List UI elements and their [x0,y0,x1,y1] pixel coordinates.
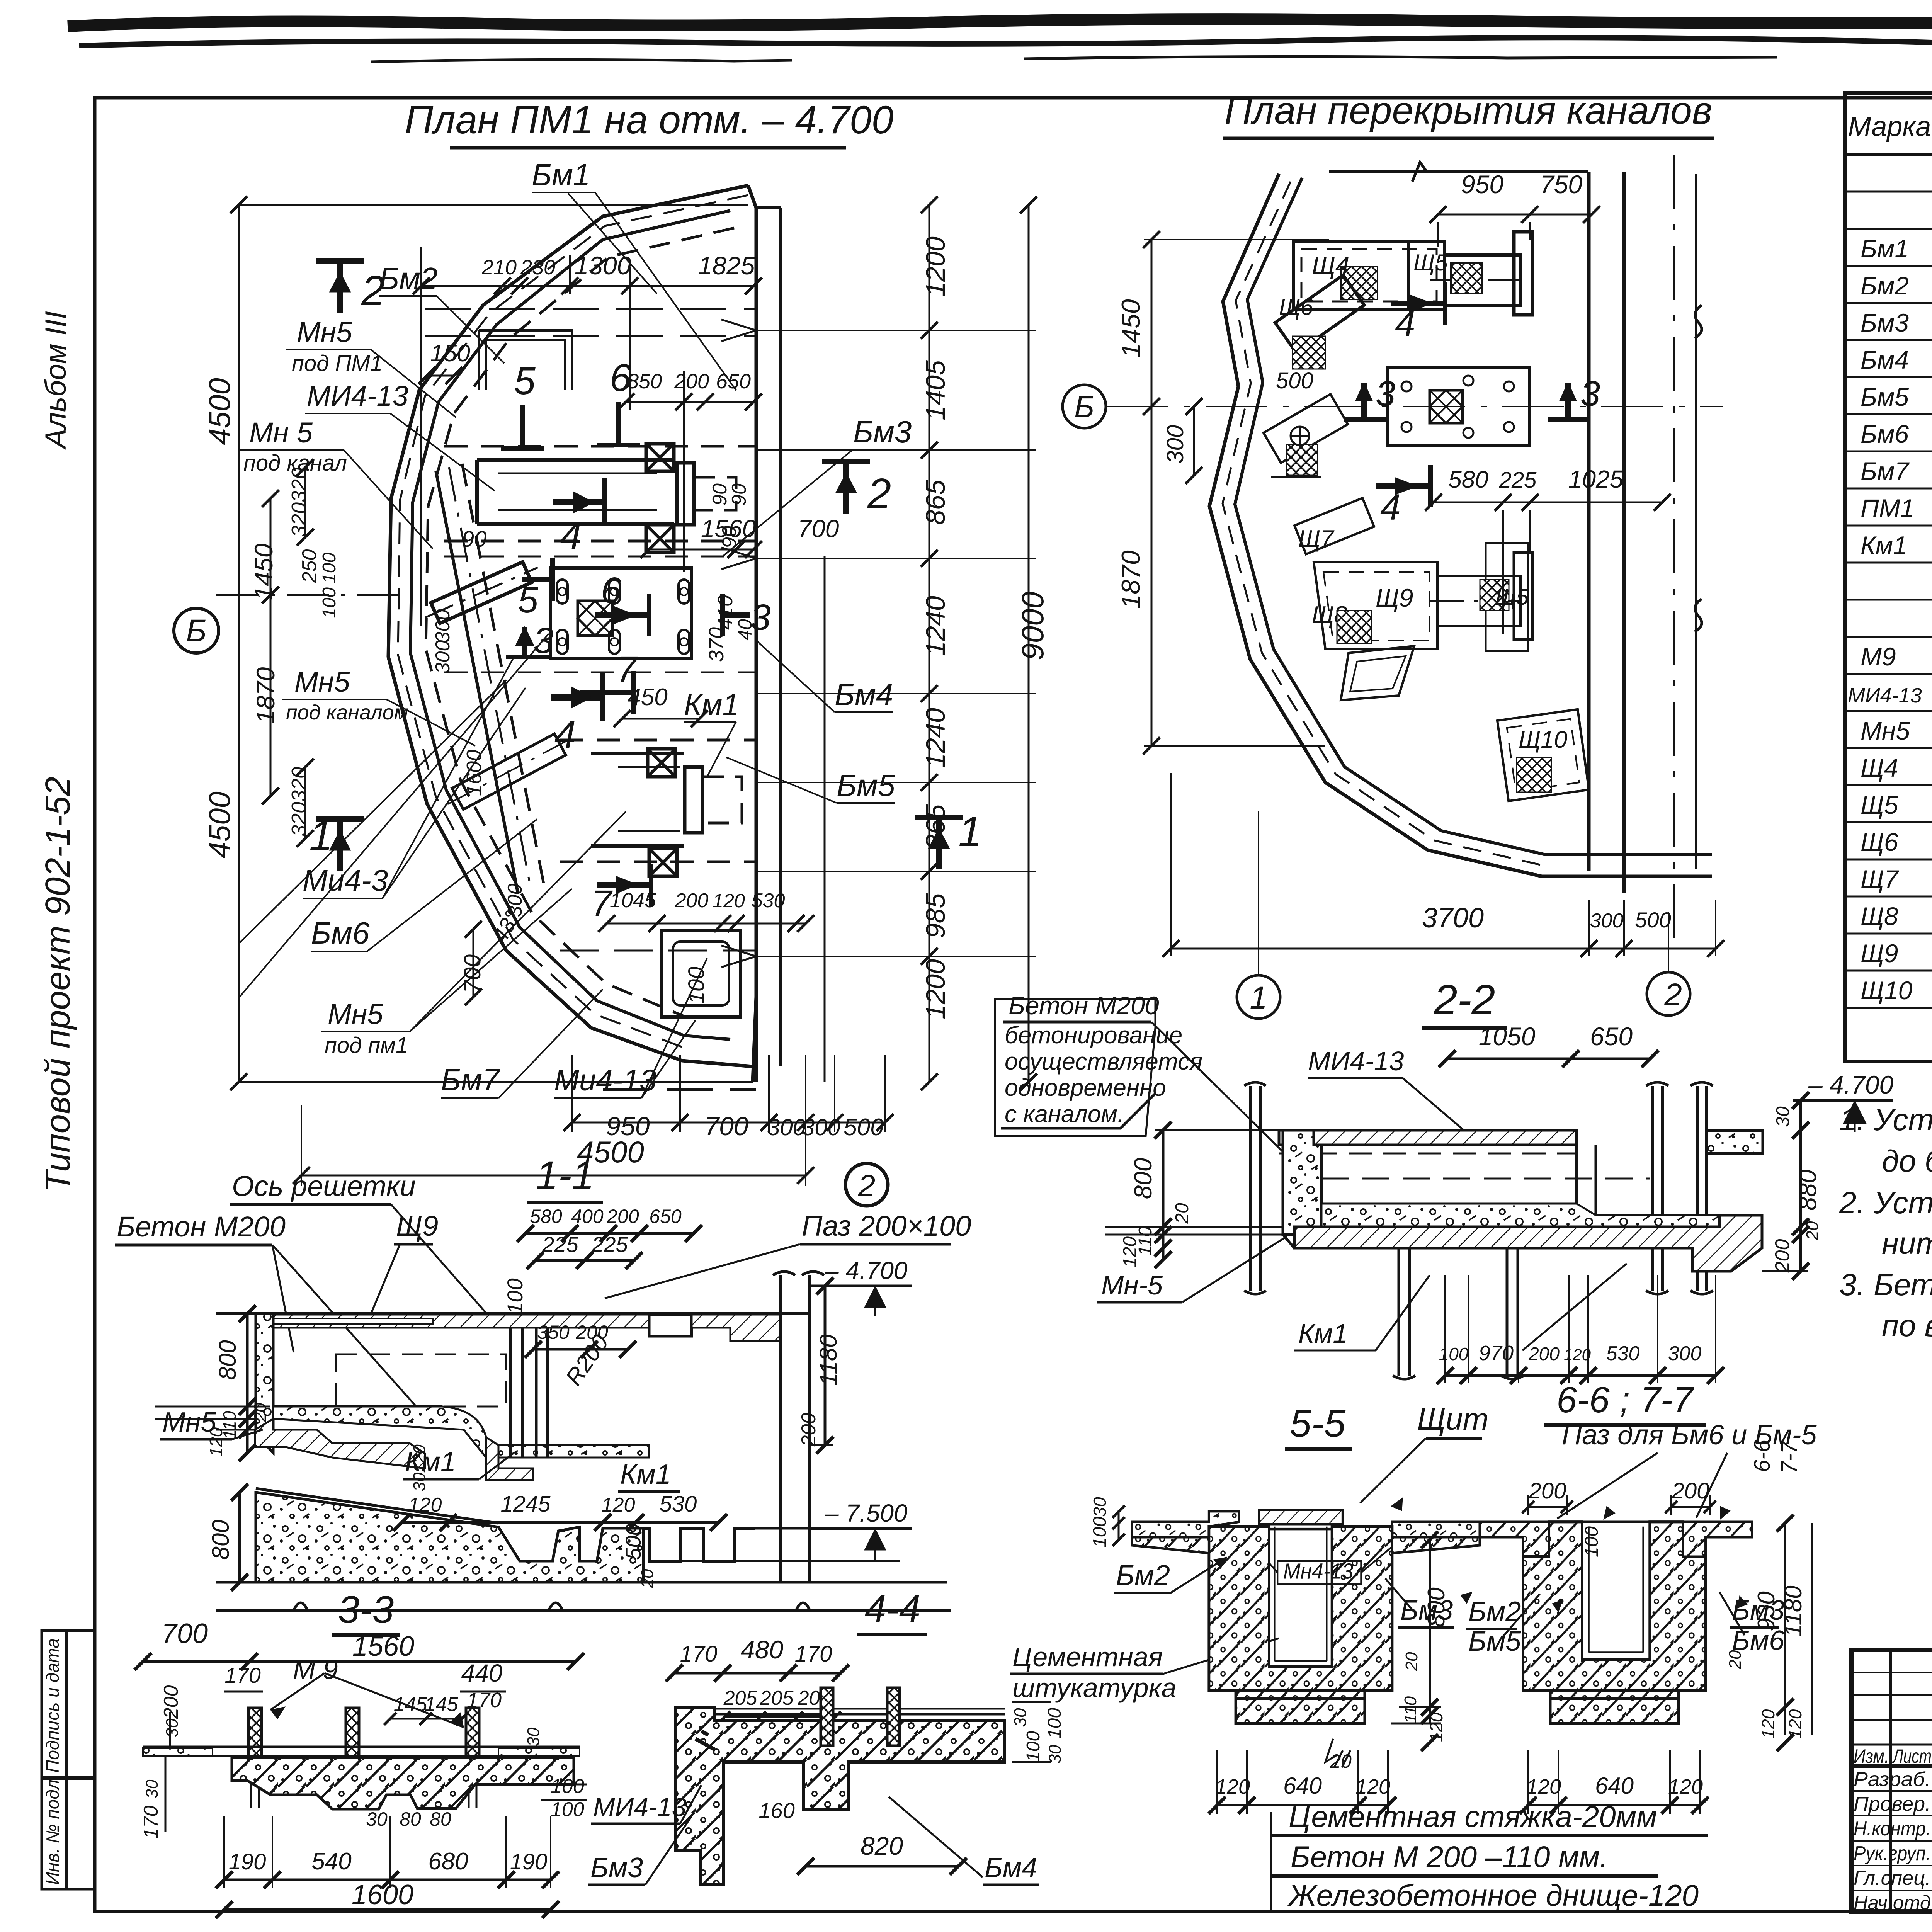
svg-text:Типовой проект 902-1-52: Типовой проект 902-1-52 [39,777,77,1192]
svg-text:120: 120 [1668,1775,1703,1798]
central plate with bolts [1388,368,1530,445]
svg-text:3-3: 3-3 [338,1588,394,1631]
right dims [824,1286,827,1445]
svg-text:120: 120 [1564,1345,1591,1364]
svg-text:120: 120 [1758,1709,1778,1739]
svg-text:30: 30 [1090,1497,1110,1517]
svg-text:под ПМ1: под ПМ1 [292,351,383,376]
svg-text:160: 160 [759,1798,794,1823]
svg-text:до бетонирования по механиче: до бетонирования по механическим чертежа… [1882,1144,1932,1178]
axis bubble 2 right of 1-1 [845,1163,888,1206]
svg-text:Щит: Щит [1417,1402,1489,1436]
svg-text:Щ10: Щ10 [1519,726,1567,753]
svg-text:1405: 1405 [920,360,951,420]
svg-text:440: 440 [461,1659,503,1687]
svg-text:1200: 1200 [920,959,951,1019]
svg-text:30: 30 [1011,1708,1030,1727]
svg-text:650: 650 [649,1206,682,1227]
svg-text:200: 200 [674,370,709,393]
svg-text:640: 640 [1595,1773,1634,1799]
svg-text:320: 320 [287,502,311,537]
svg-text:200: 200 [675,889,709,912]
svg-text:Щ10: Щ10 [1861,976,1913,1005]
svg-text:Цементная: Цементная [1012,1642,1163,1672]
svg-text:1: 1 [309,812,333,859]
4-4 body [675,1708,1005,1885]
svg-text:Щ5: Щ5 [1413,250,1448,276]
svg-text:200: 200 [1672,1478,1709,1503]
2-2 right dims [1799,1100,1802,1271]
svg-text:9000: 9000 [1015,592,1050,660]
svg-text:3700: 3700 [1422,903,1484,934]
svg-text:ПМ1: ПМ1 [1861,494,1915,522]
svg-text:Бм2: Бм2 [1116,1559,1170,1591]
svg-text:под каналом: под каналом [286,701,408,724]
svg-text:800: 800 [1129,1158,1157,1199]
svg-text:Бм3: Бм3 [853,415,912,449]
svg-text:100: 100 [319,553,340,583]
svg-text:300: 300 [1162,425,1188,464]
svg-text:190: 190 [510,1849,548,1874]
svg-text:Бм4: Бм4 [1861,345,1909,374]
svg-text:190: 190 [229,1849,266,1874]
svg-text:6: 6 [601,570,621,611]
svg-text:Бм5: Бм5 [1861,383,1909,411]
bolts 3-3 [248,1708,262,1770]
svg-text:500: 500 [621,1524,645,1560]
svg-text:Мн4-13: Мн4-13 [1283,1559,1354,1583]
svg-text:30: 30 [524,1727,543,1746]
svg-text:Бм4: Бм4 [985,1852,1037,1883]
svg-text:1560: 1560 [352,1631,414,1662]
svg-text:7: 7 [616,649,638,690]
svg-text:6-6: 6-6 [1750,1439,1775,1472]
svg-text:Мн5: Мн5 [1861,716,1910,745]
svg-text:120: 120 [1426,1712,1446,1742]
svg-text:2: 2 [867,470,891,517]
svg-text:120: 120 [1215,1775,1250,1798]
svg-text:Бм1: Бм1 [1861,234,1909,263]
svg-text:Провер.: Провер. [1854,1793,1931,1815]
svg-text:1600: 1600 [352,1879,413,1910]
svg-text:680: 680 [428,1848,468,1875]
svg-text:170: 170 [680,1641,718,1667]
slanted opening [1341,646,1414,700]
svg-text:осуществляется: осуществляется [1005,1048,1202,1075]
svg-text:700: 700 [798,515,839,543]
top dimension chains [421,285,753,287]
svg-text:Бм3: Бм3 [590,1852,643,1883]
svg-text:1825: 1825 [698,251,755,280]
svg-text:100: 100 [1044,1708,1065,1739]
svg-text:30: 30 [143,1779,162,1798]
svg-text:Бм3: Бм3 [1861,308,1909,337]
section flags 3,3,4,4 [1361,383,1367,417]
svg-text:350: 350 [537,1321,570,1343]
svg-text:30: 30 [1773,1106,1793,1127]
svg-text:Гл.спец.: Гл.спец. [1854,1867,1931,1889]
svg-text:580: 580 [530,1206,562,1227]
svg-text:1240: 1240 [920,708,951,768]
bottom dimension chains [572,1122,885,1124]
bottom-left boxes [42,1631,95,1889]
svg-text:1: 1 [1250,980,1267,1015]
svg-text:Бм2: Бм2 [379,261,437,296]
svg-text:4: 4 [560,514,582,557]
svg-text:Ми4-13: Ми4-13 [554,1063,656,1097]
svg-text:Мн5: Мн5 [294,666,350,698]
lower channel [591,753,684,846]
svg-text:6: 6 [610,356,631,400]
svg-text:205: 205 [723,1687,758,1709]
svg-text:Бм6: Бм6 [1732,1625,1785,1656]
left dims [246,1314,249,1453]
svg-text:1870: 1870 [251,667,280,724]
axis bubble 1 [1237,975,1280,1019]
svg-text:120: 120 [410,1444,429,1473]
sections 5-5 and 6-6;7-7 [1090,1379,1817,1915]
svg-text:– 4.700: – 4.700 [1808,1070,1893,1099]
svg-text:– 7.500: – 7.500 [825,1499,908,1527]
svg-text:90: 90 [728,483,750,506]
svg-text:7-7: 7-7 [1777,1440,1802,1474]
svg-text:700: 700 [704,1112,748,1141]
svg-text:320: 320 [287,767,311,802]
2-2 left dims [1162,1130,1165,1260]
axis bubble B [174,608,219,653]
svg-text:200: 200 [160,1685,182,1719]
svg-text:Бм6: Бм6 [311,916,370,950]
section 1-1 [115,1153,971,1611]
svg-text:Км1: Км1 [1861,531,1907,560]
svg-text:1240: 1240 [920,596,951,656]
svg-text:100: 100 [551,1798,584,1821]
svg-text:План ПМ1 на отм. – 4.700: План ПМ1 на отм. – 4.700 [405,98,893,142]
svg-text:Подпись и дата: Подпись и дата [43,1638,63,1773]
right dimension chains [824,556,826,1082]
svg-text:30: 30 [410,1472,429,1491]
svg-text:Км1: Км1 [1298,1318,1348,1349]
svg-text:225: 225 [542,1232,578,1257]
svg-text:3. Бетон для перекрытия при: 3. Бетон для перекрытия принять по прочн… [1839,1267,1932,1302]
svg-text:Мн 5: Мн 5 [249,417,313,449]
svg-text:225: 225 [591,1232,628,1257]
svg-text:Км1: Км1 [620,1459,671,1490]
central anchor plate [551,568,692,659]
svg-text:650: 650 [1590,1022,1633,1051]
svg-text:Щ9: Щ9 [1376,583,1413,612]
axis B bubble [1063,385,1106,428]
svg-text:Щ6: Щ6 [1861,828,1898,856]
svg-text:800: 800 [207,1520,234,1560]
svg-text:Мн5: Мн5 [297,316,352,348]
plan PM1 [174,98,1050,1186]
svg-text:1050: 1050 [1479,1022,1536,1051]
svg-text:120: 120 [713,890,745,912]
svg-text:80: 80 [400,1808,421,1830]
svg-text:МИ4-13: МИ4-13 [593,1793,687,1822]
svg-text:200: 200 [606,1206,639,1227]
svg-text:с каналом.: с каналом. [1005,1101,1124,1128]
svg-text:500: 500 [1635,908,1671,932]
svg-text:Щ5: Щ5 [1495,585,1529,610]
svg-text:4: 4 [1380,487,1401,528]
svg-text:1245: 1245 [500,1492,551,1517]
svg-text:120: 120 [1785,1709,1805,1739]
main structure [216,1312,810,1315]
svg-text:1-1: 1-1 [536,1153,594,1198]
upper channel [477,460,674,524]
svg-text:3: 3 [750,597,771,638]
svg-text:20: 20 [1172,1203,1192,1224]
svg-text:Бм7: Бм7 [1861,457,1910,485]
svg-text:под канал: под канал [243,451,347,476]
svg-text:210: 210 [481,256,517,279]
title block [1851,1650,1932,1915]
svg-text:80: 80 [430,1808,451,1830]
svg-text:320: 320 [287,802,311,837]
svg-text:300: 300 [1668,1342,1702,1365]
svg-text:Рук.груп.: Рук.груп. [1854,1842,1931,1865]
svg-text:150: 150 [430,340,470,367]
svg-text:640: 640 [1283,1773,1322,1799]
6-6 body [1480,1522,1752,1723]
svg-text:нить по чертежам монтажных п: нить по чертежам монтажных планов лестни… [1882,1226,1932,1260]
lower pump bar + Shch5 [1437,576,1520,626]
svg-text:1870: 1870 [1116,550,1146,609]
svg-text:Бм4: Бм4 [835,677,893,712]
svg-text:4500: 4500 [202,378,236,445]
svg-text:580: 580 [1448,466,1488,493]
svg-text:30: 30 [1046,1745,1065,1764]
svg-text:Цементная стяжка-20мм: Цементная стяжка-20мм [1289,1799,1657,1833]
svg-text:Бм2: Бм2 [1468,1596,1521,1627]
svg-text:под пм1: под пм1 [325,1033,408,1058]
svg-text:7: 7 [591,883,613,924]
plan2 bottom dims [1171,948,1716,950]
plan2 top dims [1438,214,1592,216]
svg-text:Щ9: Щ9 [1861,939,1898,968]
svg-text:100: 100 [1023,1731,1044,1762]
2-2 bottom dim chain [1445,1374,1716,1377]
svg-text:1450: 1450 [249,543,278,600]
plan2 outer boundary [1223,182,1544,866]
svg-text:530: 530 [1606,1342,1640,1365]
svg-text:Щ9: Щ9 [396,1210,438,1242]
svg-text:205: 205 [760,1687,794,1709]
svg-text:2: 2 [1664,977,1682,1012]
svg-text:одновременно: одновременно [1005,1075,1166,1101]
svg-text:650: 650 [716,370,751,393]
svg-text:Бетон М200: Бетон М200 [117,1211,286,1243]
svg-text:300: 300 [767,1114,806,1140]
svg-text:225: 225 [1499,468,1537,493]
left dimension chains [238,205,240,1082]
svg-text:Бетон М200: Бетон М200 [1009,991,1159,1020]
panel Shch6 [1275,275,1364,353]
callout text Beton M200 [995,999,1155,1136]
3-3 bottom chains [224,1879,551,1881]
svg-text:Бм2: Бм2 [1861,271,1909,300]
svg-text:120: 120 [408,1494,442,1516]
specification table [1845,93,1932,1061]
svg-text:Железобетонное днище-120: Железобетонное днище-120 [1287,1878,1699,1912]
panel Shch8 [1294,498,1374,554]
svg-text:Разраб.: Разраб. [1854,1768,1931,1791]
svg-text:4: 4 [554,713,576,756]
panel Shch9 [1314,562,1437,649]
svg-text:170: 170 [795,1641,832,1667]
svg-text:Бм5: Бм5 [837,768,895,803]
svg-text:М9: М9 [1861,642,1896,671]
svg-text:Паз 200×100: Паз 200×100 [802,1210,971,1242]
svg-text:Мн5: Мн5 [328,998,383,1030]
svg-text:1: 1 [958,808,982,855]
svg-text:штукатурка: штукатурка [1012,1673,1177,1703]
svg-text:30: 30 [163,1718,182,1737]
svg-text:Щ7: Щ7 [1861,865,1899,893]
svg-text:20: 20 [1803,1221,1822,1240]
svg-text:Бетон М 200 –110 мм.: Бетон М 200 –110 мм. [1291,1840,1608,1874]
svg-text:4: 4 [1395,303,1415,344]
svg-text:300: 300 [432,640,454,674]
svg-text:145: 145 [394,1693,428,1716]
svg-text:800: 800 [214,1340,241,1380]
svg-text:Изм.: Изм. [1854,1745,1889,1767]
svg-text:30: 30 [366,1808,388,1830]
plan2 left dims [1151,240,1153,746]
svg-text:Щ4: Щ4 [1861,753,1898,782]
svg-text:820: 820 [861,1832,903,1860]
svg-text:200: 200 [1529,1478,1566,1503]
svg-text:по водонепроницаемости В-4,: по водонепроницаемости В-4, по морозосто… [1882,1308,1932,1343]
svg-text:1450: 1450 [1116,299,1146,357]
svg-text:Бм6: Бм6 [1861,420,1909,448]
svg-text:200: 200 [1528,1344,1560,1364]
svg-text:850: 850 [627,370,662,393]
section 2-2 [995,976,1893,1384]
svg-text:Альбом III: Альбом III [39,311,72,450]
panel Shch4 [1294,241,1444,309]
svg-text:2. Установку закладных элеме: 2. Установку закладных элементов для лес… [1839,1185,1932,1220]
svg-text:880: 880 [1794,1169,1821,1211]
svg-text:20: 20 [638,1569,657,1588]
svg-text:1200: 1200 [920,236,951,297]
svg-text:530: 530 [660,1492,697,1517]
svg-text:110: 110 [1401,1696,1420,1723]
svg-text:700: 700 [162,1618,208,1649]
svg-text:100: 100 [319,587,340,618]
svg-text:МИ4-13: МИ4-13 [307,380,408,412]
svg-text:Марка: Марка [1848,111,1931,142]
svg-text:230: 230 [520,256,555,279]
svg-text:5: 5 [518,580,539,621]
svg-text:5-5: 5-5 [1290,1402,1346,1445]
svg-text:2: 2 [858,1168,876,1203]
svg-text:Бм1: Бм1 [532,158,590,192]
plan2 mid dims 580 225 1025 [1434,502,1662,503]
svg-text:120: 120 [1120,1236,1140,1267]
svg-text:Км1: Км1 [684,687,739,721]
svg-text:20: 20 [1402,1652,1421,1671]
svg-text:Мн-5: Мн-5 [1101,1270,1163,1300]
svg-text:– 4.700: – 4.700 [825,1257,908,1284]
svg-text:170: 170 [224,1663,260,1687]
svg-text:500: 500 [1276,368,1313,393]
axis bubble 2 [1647,972,1690,1015]
svg-text:Б: Б [1074,389,1094,424]
svg-text:Н.контр.: Н.контр. [1854,1818,1931,1840]
svg-text:Бм7: Бм7 [441,1063,500,1097]
diagonal channel along left wall [436,471,518,893]
svg-text:Щ8: Щ8 [1861,902,1898,930]
2-2 structure [1249,1086,1252,1291]
svg-text:750: 750 [1540,170,1582,199]
svg-text:170: 170 [140,1806,162,1839]
svg-text:100: 100 [503,1278,527,1314]
svg-text:200: 200 [1771,1239,1794,1273]
square opening [662,930,741,1017]
panel Shch7 [1264,394,1348,463]
2-2 top dims [1447,1058,1650,1060]
svg-text:250: 250 [298,549,321,583]
svg-text:Щ5: Щ5 [1861,791,1898,819]
top dims [526,1232,694,1235]
svg-text:950: 950 [1461,170,1503,199]
svg-text:985: 985 [920,893,951,939]
svg-text:100: 100 [1090,1517,1110,1548]
svg-text:100: 100 [1582,1526,1602,1557]
svg-text:4500: 4500 [202,791,236,859]
svg-text:300: 300 [1590,910,1624,932]
svg-text:5: 5 [514,359,536,403]
svg-text:Лист: Лист [1892,1745,1932,1767]
sections 3-3 and 4-4 [134,1587,1279,1918]
svg-text:МИ4-13: МИ4-13 [1848,684,1922,707]
plan perekrytiya kanalov [1063,89,1724,1019]
svg-text:400: 400 [571,1206,604,1227]
svg-text:145: 145 [425,1693,459,1716]
svg-text:Бм5: Бм5 [1468,1626,1521,1657]
svg-text:Ось решетки: Ось решетки [232,1170,416,1202]
5-5 body [1132,1510,1480,1724]
svg-text:200: 200 [798,1413,820,1447]
svg-text:Инв. № подл.: Инв. № подл. [43,1775,63,1885]
notes [1839,1102,1932,1343]
plan PM1 outer wall outline [388,185,756,1082]
svg-text:3: 3 [1580,374,1600,413]
svg-text:1180: 1180 [815,1334,842,1386]
svg-text:540: 540 [311,1848,351,1875]
svg-text:480: 480 [741,1635,783,1664]
shield plate on top [1259,1510,1343,1524]
svg-text:300: 300 [432,609,454,643]
svg-text:530: 530 [752,889,785,912]
svg-text:970: 970 [1479,1342,1514,1365]
svg-text:МИ4-13: МИ4-13 [1308,1046,1404,1076]
panel Shch10 [1497,709,1589,801]
section cut marks [337,261,343,313]
svg-text:1025: 1025 [1568,465,1624,493]
slab 3-3 [143,1746,580,1748]
svg-text:План перекрытия каналов: План перекрытия каналов [1225,89,1712,132]
svg-text:90: 90 [462,527,487,552]
svg-text:Б: Б [186,613,206,648]
svg-text:865: 865 [920,480,951,525]
svg-text:120: 120 [1526,1775,1561,1798]
svg-text:120: 120 [1355,1775,1390,1798]
svg-text:Нач.отд: Нач.отд [1854,1892,1931,1914]
